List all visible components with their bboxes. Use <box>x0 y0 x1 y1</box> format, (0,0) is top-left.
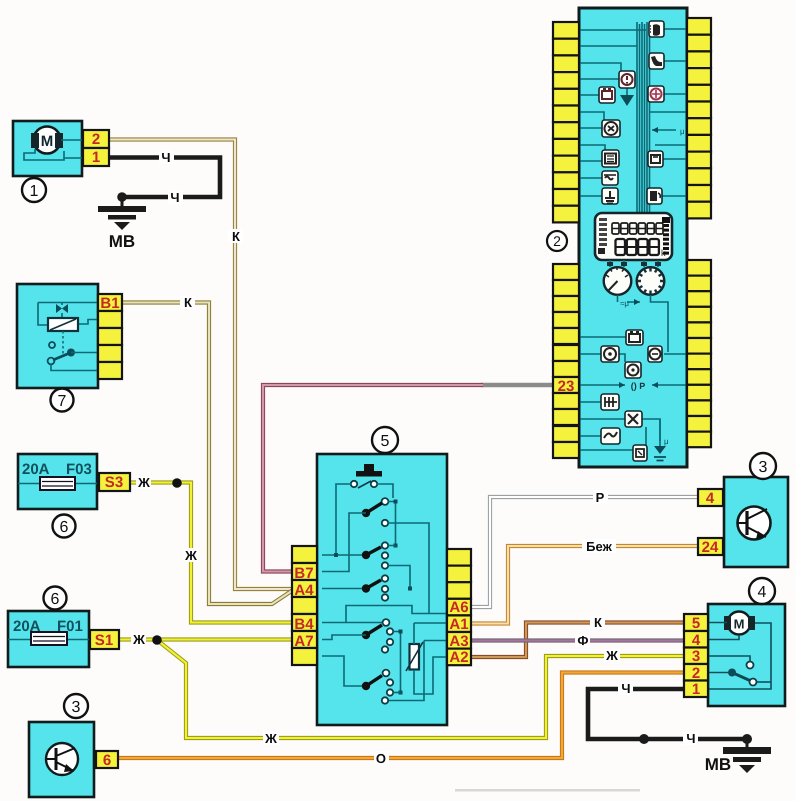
component 6 fuse F03 <box>18 454 130 538</box>
cluster internal wire bundle <box>637 22 650 214</box>
pin B1 of component 7 <box>98 294 122 311</box>
switch lever 4 inside 5 <box>322 622 383 624</box>
wire label F on violet wire <box>575 633 590 648</box>
wire O orange from sensor3 pin6 to motor4 pin 2 <box>116 673 686 759</box>
pin 3 of motor 4 <box>684 648 708 665</box>
svg-text:μ: μ <box>680 127 685 136</box>
svg-text:24: 24 <box>702 539 719 556</box>
cluster internal connection lines right <box>650 29 687 196</box>
svg-text:К: К <box>594 615 602 630</box>
component 5 steering column switch unit <box>292 427 471 725</box>
component 2 instrument cluster <box>547 8 711 467</box>
cluster small mu arrows mid <box>652 129 676 131</box>
svg-text:3: 3 <box>759 459 768 476</box>
svg-text:О: О <box>376 751 386 766</box>
designator circle 3 bottom-left <box>64 694 88 718</box>
cluster gauge left <box>610 260 624 267</box>
ground MV bottom <box>705 734 771 774</box>
wire maroon from cluster pin23 to switch5 pin B7 <box>263 385 483 572</box>
switch lever 5 inside 5 <box>322 656 366 686</box>
wire P white from switch5 pin A6 to unit3 pin 4 <box>469 497 700 607</box>
svg-text:МВ: МВ <box>705 755 731 774</box>
contact circles of component 4 <box>747 662 754 669</box>
solo contact circle inside 5 <box>382 520 388 526</box>
unlabeled pins of component 7 <box>98 311 122 328</box>
svg-text:M: M <box>41 133 54 150</box>
wire label Bezh on beige wire <box>582 539 616 554</box>
junction dot on S1 wire <box>152 635 162 645</box>
svg-text:Ч: Ч <box>686 731 695 746</box>
relay contact of component 7 <box>49 342 55 348</box>
wire K beige from component1 pin2 to switch5 pin A4 <box>107 140 294 590</box>
wire label Zh on wire to pin3 <box>604 648 620 663</box>
cluster internal connection lines left <box>579 30 646 196</box>
svg-text:Ж: Ж <box>137 475 150 490</box>
cluster pin23 internal line with P mark <box>579 384 687 386</box>
svg-text:Ж: Ж <box>264 731 277 746</box>
svg-text:Ж: Ж <box>184 548 197 563</box>
svg-text:6: 6 <box>51 591 60 608</box>
wire Ch black from motor4 pin1 to ground MV bottom <box>588 689 747 739</box>
connection lines to right pins A6 A1 inside 5 <box>346 606 447 624</box>
junction dot on S3 wire <box>172 478 182 488</box>
wire label Ch on comp1 ground segment <box>168 190 183 205</box>
wire Zh yellow branch from S1 junction to motor4 pin 3 <box>157 640 686 738</box>
svg-text:6: 6 <box>60 519 69 536</box>
pin S1 <box>90 630 119 649</box>
pin 4 of unit 3 <box>698 489 723 506</box>
relay coil of component 7 <box>38 303 98 326</box>
pin 2 of component 1 <box>83 130 109 148</box>
svg-text:Ж: Ж <box>132 632 145 647</box>
component 6 fuse F01 <box>8 587 119 668</box>
svg-text:6: 6 <box>103 752 111 769</box>
component 1 washer pump motor <box>13 121 109 202</box>
svg-text:7: 7 <box>58 393 67 410</box>
wire label K on relay wire <box>180 295 195 310</box>
cluster icon boxes <box>649 21 664 37</box>
svg-text:5: 5 <box>692 615 700 632</box>
wire gray stub from cluster pin 23 <box>481 383 555 387</box>
svg-text:S3: S3 <box>105 474 123 491</box>
junction dot on black ground wire bottom <box>639 734 649 744</box>
transistor symbol unit 3 right <box>738 507 771 540</box>
svg-text:5: 5 <box>381 433 390 450</box>
ground MV top <box>98 192 146 251</box>
pin 1 of motor 4 <box>684 681 708 698</box>
fuse element F03 <box>40 477 75 490</box>
cluster lines below gauges <box>579 295 687 450</box>
wire label K on vertical beige wire <box>228 229 243 244</box>
svg-text:3: 3 <box>72 699 81 716</box>
pin S3 <box>99 473 130 491</box>
component 4 wiper motor <box>684 578 785 706</box>
svg-text:В1: В1 <box>100 295 119 312</box>
wire label Zh on vertical S3 wire <box>183 548 199 563</box>
svg-text:1: 1 <box>30 183 39 200</box>
svg-text:А3: А3 <box>449 633 468 650</box>
svg-text:F03: F03 <box>66 461 92 478</box>
designator circle 7 <box>51 389 74 412</box>
svg-text:4: 4 <box>706 490 715 507</box>
svg-text:3: 3 <box>692 648 700 665</box>
right pin column of 5 <box>447 549 471 566</box>
wire label Zh near S1 <box>131 632 146 647</box>
pin 6 <box>96 751 118 768</box>
designator circle 5 <box>372 427 398 453</box>
pin 2 of motor 4 <box>684 664 708 681</box>
designator circle 3 right <box>750 453 776 479</box>
svg-text:Ч: Ч <box>621 681 630 696</box>
cluster right pin column bottom group <box>687 260 711 276</box>
designator circle 4 <box>749 578 775 604</box>
svg-text:2: 2 <box>553 233 561 249</box>
resistor inside 5 <box>410 644 420 670</box>
wire label Zh on bottom wire <box>263 731 279 746</box>
svg-text:К: К <box>184 295 192 310</box>
wire label Ch on comp1 wire top <box>159 150 174 165</box>
svg-text:Беж: Беж <box>586 539 612 554</box>
svg-text:А2: А2 <box>449 649 468 666</box>
cluster gauge right <box>644 260 658 267</box>
component 3 bottom-left sensor unit <box>29 694 118 797</box>
wire label O on bottom orange wire <box>374 751 389 766</box>
component 3 right control unit <box>698 453 788 567</box>
svg-text:А1: А1 <box>449 616 468 633</box>
motor M symbol of component 4 <box>728 612 751 635</box>
wire Bezh beige from switch5 pin A1 to unit3 pin 24 <box>469 546 700 624</box>
scan artifact line bottom <box>455 789 640 792</box>
wire K red-brown from switch5 pin A2 to motor4 pin 5 <box>469 623 686 658</box>
cluster left pin column bottom group <box>553 264 579 280</box>
svg-text:23: 23 <box>558 378 575 395</box>
cluster mu mark below gauges <box>634 299 640 305</box>
wire label Ch on comp4 pin1 wire <box>618 681 633 696</box>
cluster LCD display <box>595 213 672 260</box>
cluster right pin column top group <box>687 18 711 35</box>
designator circle 1 <box>22 178 46 202</box>
designator circle 6 (F01) <box>44 587 67 610</box>
svg-text:≈μ: ≈μ <box>620 299 629 308</box>
svg-text:20A: 20A <box>22 461 50 478</box>
pin 24 of unit 3 <box>698 538 723 555</box>
svg-text:Р: Р <box>596 490 605 505</box>
designator circle 2 <box>547 231 567 251</box>
designator circle 6 (F03) <box>53 515 76 538</box>
fuse element F01 <box>31 632 67 645</box>
svg-text:Ф: Ф <box>577 633 588 648</box>
transistor symbol bottom-left <box>46 743 78 775</box>
svg-text:M: M <box>734 616 745 631</box>
svg-text:4: 4 <box>758 584 767 601</box>
wire F violet from switch5 pin A3 to motor4 pin 4 <box>469 638 686 642</box>
svg-text:() Р: () Р <box>631 381 646 391</box>
wire Zh yellow from fuse F01 S1 to switch5 pin A7 <box>117 637 294 641</box>
pin 1 of component 1 <box>83 148 109 166</box>
cluster internal ground <box>659 419 661 446</box>
svg-text:А6: А6 <box>449 599 468 616</box>
component 7 relay <box>17 284 122 412</box>
switch lever 2 inside 5 <box>322 554 366 556</box>
cluster arrow below icon row3 <box>626 88 628 95</box>
wire label P on white wire <box>593 490 608 505</box>
svg-text:Ж: Ж <box>605 648 618 663</box>
svg-text:К: К <box>232 229 240 244</box>
push button switch inside 5 <box>364 464 374 471</box>
svg-text:1: 1 <box>92 149 100 166</box>
switch lever 3 inside 5 <box>322 588 366 590</box>
svg-text:Ч: Ч <box>161 150 170 165</box>
wire label Zh near S3 <box>136 475 151 490</box>
svg-text:Ч: Ч <box>170 190 179 205</box>
left pin column of 5 <box>292 546 317 563</box>
switch lever 1 inside 5 <box>382 498 389 505</box>
svg-text:μ: μ <box>664 437 669 446</box>
pin 5 of motor 4 <box>684 614 708 631</box>
wire Ch black from component1 pin1 to ground MV <box>107 158 220 198</box>
svg-text:2: 2 <box>92 131 100 148</box>
svg-text:k: k <box>661 248 666 258</box>
wire Zh yellow from fuse F03 S3 to switch5 pin B4 <box>128 483 294 623</box>
pin 4 of motor 4 <box>684 631 708 648</box>
wire label Ch on bottom ground wire <box>683 731 698 746</box>
motor M symbol of component 1 <box>34 127 61 154</box>
wire label K on red-brown wire <box>590 615 605 630</box>
wire K olive from relay7 pin B1 to switch5 pin A4 <box>120 303 293 605</box>
svg-text:1: 1 <box>692 681 700 698</box>
svg-text:МВ: МВ <box>109 232 135 251</box>
svg-text:S1: S1 <box>95 632 113 649</box>
cluster left pin column top group <box>553 22 579 39</box>
